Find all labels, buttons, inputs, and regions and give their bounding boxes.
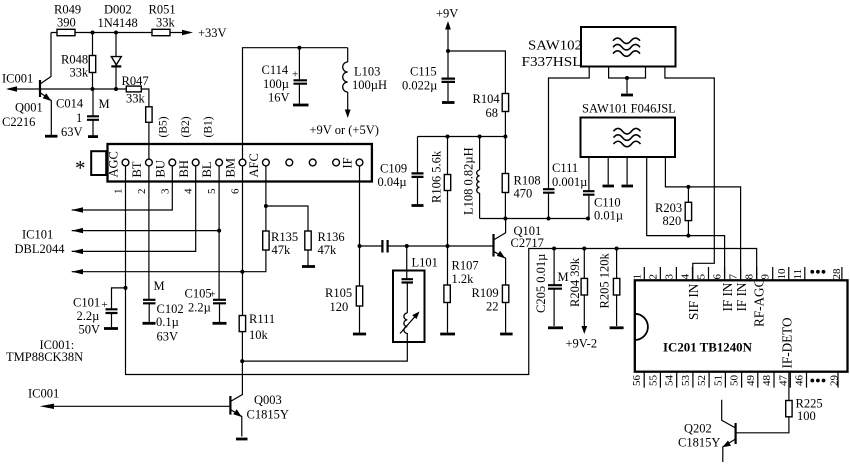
svg-text:IF-DETO: IF-DETO bbox=[779, 317, 794, 368]
svg-text:47k: 47k bbox=[272, 243, 292, 257]
svg-text:100: 100 bbox=[797, 409, 816, 423]
svg-text:IF IN: IF IN bbox=[720, 282, 735, 311]
svg-text:1.2k: 1.2k bbox=[452, 272, 475, 286]
svg-text:Q001: Q001 bbox=[15, 101, 43, 115]
svg-text:28: 28 bbox=[831, 268, 843, 280]
svg-text:C1815Y: C1815Y bbox=[247, 408, 289, 422]
svg-text:C2216: C2216 bbox=[2, 115, 35, 129]
svg-text:R109: R109 bbox=[472, 286, 499, 300]
svg-text:C101: C101 bbox=[73, 296, 100, 310]
svg-text:BM: BM bbox=[224, 158, 238, 177]
svg-text:R111: R111 bbox=[249, 312, 275, 326]
svg-text:0.04µ: 0.04µ bbox=[378, 175, 407, 189]
svg-text:+: + bbox=[102, 299, 108, 311]
svg-text:AGC: AGC bbox=[107, 151, 121, 177]
svg-text:SAW101 F046JSL: SAW101 F046JSL bbox=[582, 102, 676, 116]
svg-text:M: M bbox=[99, 97, 110, 111]
svg-text:2.2µ: 2.2µ bbox=[77, 309, 100, 323]
svg-text:46: 46 bbox=[794, 375, 806, 387]
svg-text:SAW102: SAW102 bbox=[528, 39, 582, 54]
svg-text:IF: IF bbox=[341, 157, 355, 168]
svg-text:120: 120 bbox=[330, 300, 349, 314]
svg-text:IC201 TB1240N: IC201 TB1240N bbox=[663, 341, 753, 355]
svg-text:M: M bbox=[154, 279, 165, 293]
svg-text:11: 11 bbox=[792, 269, 804, 280]
svg-text:50: 50 bbox=[729, 375, 741, 387]
svg-text:R136: R136 bbox=[318, 230, 345, 244]
svg-text:6: 6 bbox=[712, 274, 724, 280]
svg-text:9: 9 bbox=[760, 274, 772, 280]
svg-text:56: 56 bbox=[631, 375, 643, 387]
svg-text:5: 5 bbox=[696, 274, 708, 280]
svg-text:54: 54 bbox=[664, 375, 676, 387]
svg-text:48: 48 bbox=[761, 375, 773, 387]
svg-text:49: 49 bbox=[745, 375, 757, 387]
svg-text:C1815Y: C1815Y bbox=[678, 436, 720, 450]
svg-text:1: 1 bbox=[76, 111, 82, 125]
svg-text:L101: L101 bbox=[412, 256, 438, 270]
svg-text:53: 53 bbox=[680, 375, 692, 387]
svg-text:C111: C111 bbox=[552, 161, 578, 175]
svg-text:33k: 33k bbox=[126, 92, 146, 106]
svg-text:47k: 47k bbox=[318, 243, 338, 257]
svg-text:6: 6 bbox=[230, 188, 242, 194]
svg-text:1: 1 bbox=[631, 274, 643, 280]
svg-text:22: 22 bbox=[486, 300, 499, 314]
svg-text:1: 1 bbox=[113, 189, 125, 195]
svg-text:R049: R049 bbox=[54, 3, 81, 17]
svg-text:BL: BL bbox=[200, 162, 214, 178]
svg-text:C110: C110 bbox=[594, 196, 621, 210]
svg-text:2.2µ: 2.2µ bbox=[188, 301, 211, 315]
svg-text:820: 820 bbox=[663, 214, 682, 228]
svg-text:IC001: IC001 bbox=[2, 72, 33, 86]
svg-text:3: 3 bbox=[159, 188, 171, 194]
svg-text:2: 2 bbox=[136, 189, 148, 195]
svg-text:+9V or (+5V): +9V or (+5V) bbox=[310, 123, 379, 137]
svg-text:68: 68 bbox=[486, 106, 499, 120]
svg-text:*: * bbox=[75, 156, 86, 180]
svg-text:63V: 63V bbox=[157, 330, 179, 344]
svg-text:0.01µ: 0.01µ bbox=[594, 209, 623, 223]
svg-text:C102: C102 bbox=[157, 302, 184, 316]
svg-text:R203: R203 bbox=[655, 201, 682, 215]
svg-text:R108: R108 bbox=[514, 174, 541, 188]
svg-text:AFC: AFC bbox=[247, 153, 261, 177]
svg-text:+9V: +9V bbox=[436, 7, 458, 21]
svg-text:5: 5 bbox=[206, 188, 218, 194]
svg-text:C115: C115 bbox=[410, 65, 437, 79]
svg-text:(B5): (B5) bbox=[158, 116, 170, 137]
svg-text:BH: BH bbox=[177, 160, 191, 177]
svg-text:C114: C114 bbox=[262, 63, 289, 77]
svg-text:R205 120k: R205 120k bbox=[597, 253, 611, 309]
svg-text:10: 10 bbox=[776, 268, 788, 280]
svg-text:52: 52 bbox=[696, 375, 708, 386]
svg-text:R051: R051 bbox=[149, 3, 176, 17]
svg-text:2: 2 bbox=[647, 274, 659, 280]
svg-text:C205 0.01µ: C205 0.01µ bbox=[534, 254, 548, 313]
svg-text:R135: R135 bbox=[271, 230, 298, 244]
svg-text:Q003: Q003 bbox=[254, 393, 282, 407]
svg-text:100µH: 100µH bbox=[352, 78, 387, 92]
svg-text:C2717: C2717 bbox=[511, 236, 544, 250]
svg-text:F337HSL: F337HSL bbox=[522, 55, 582, 70]
svg-text:BU: BU bbox=[153, 160, 167, 177]
svg-text:+: + bbox=[292, 69, 298, 81]
svg-text:C109: C109 bbox=[380, 162, 407, 176]
svg-text:0.1µ: 0.1µ bbox=[156, 315, 179, 329]
svg-text:R107: R107 bbox=[452, 259, 479, 273]
svg-text:7: 7 bbox=[728, 274, 740, 280]
svg-text:33k: 33k bbox=[156, 16, 176, 30]
svg-text:1N4148: 1N4148 bbox=[98, 16, 138, 30]
svg-text:IF IN: IF IN bbox=[734, 282, 749, 311]
svg-text:SIF IN: SIF IN bbox=[686, 283, 701, 320]
svg-text:R106 5.6k: R106 5.6k bbox=[430, 150, 444, 203]
svg-text:55: 55 bbox=[647, 375, 659, 387]
svg-text:L103: L103 bbox=[354, 65, 380, 79]
svg-text:+33V: +33V bbox=[198, 26, 227, 40]
svg-text:R105: R105 bbox=[325, 286, 352, 300]
svg-text:4: 4 bbox=[679, 274, 691, 280]
svg-text:C014: C014 bbox=[56, 97, 84, 111]
svg-text:C105: C105 bbox=[185, 287, 212, 301]
svg-text:R104: R104 bbox=[473, 92, 501, 106]
svg-text:33k: 33k bbox=[70, 66, 90, 80]
svg-text:TMP88CK38N: TMP88CK38N bbox=[6, 350, 83, 364]
svg-text:+: + bbox=[210, 289, 216, 301]
svg-text:Q202: Q202 bbox=[684, 422, 712, 436]
svg-text:16V: 16V bbox=[268, 91, 290, 105]
svg-text:4: 4 bbox=[183, 188, 195, 194]
svg-text:0.001µ: 0.001µ bbox=[552, 175, 587, 189]
svg-text:IC001: IC001 bbox=[28, 387, 59, 401]
svg-text:63V: 63V bbox=[61, 125, 83, 139]
svg-text:(B2): (B2) bbox=[180, 116, 192, 137]
svg-text:10k: 10k bbox=[249, 328, 269, 342]
svg-text:100µ: 100µ bbox=[263, 77, 289, 91]
svg-text:8: 8 bbox=[744, 274, 756, 280]
svg-text:47: 47 bbox=[777, 375, 789, 387]
svg-text:3: 3 bbox=[663, 274, 675, 280]
svg-text:D002: D002 bbox=[104, 3, 132, 17]
svg-text:IC101: IC101 bbox=[22, 228, 53, 242]
svg-text:+9V-2: +9V-2 bbox=[566, 337, 598, 351]
svg-text:390: 390 bbox=[57, 16, 76, 30]
svg-text:29: 29 bbox=[829, 375, 841, 387]
svg-text:470: 470 bbox=[514, 187, 533, 201]
svg-text:DBL2044: DBL2044 bbox=[15, 242, 66, 256]
svg-text:(B1): (B1) bbox=[203, 116, 215, 137]
svg-text:R047: R047 bbox=[122, 74, 149, 88]
svg-text:R048: R048 bbox=[61, 53, 88, 67]
svg-text:0.022µ: 0.022µ bbox=[402, 79, 437, 93]
svg-text:RF-AGC: RF-AGC bbox=[752, 278, 767, 327]
svg-text:51: 51 bbox=[712, 375, 724, 386]
svg-text:L108 0.82µH: L108 0.82µH bbox=[462, 147, 476, 215]
svg-text:50V: 50V bbox=[79, 323, 101, 337]
svg-text:R204 39k: R204 39k bbox=[568, 257, 582, 307]
svg-text:BT: BT bbox=[130, 161, 144, 177]
